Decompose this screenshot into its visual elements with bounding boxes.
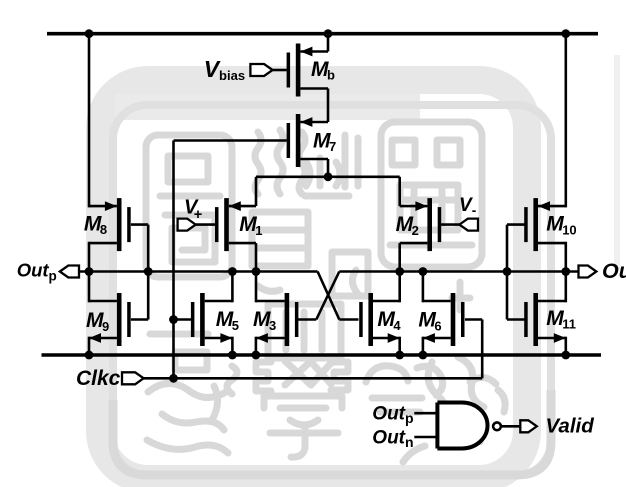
svg-text:Clkc: Clkc	[76, 367, 121, 390]
svg-text:M7: M7	[313, 129, 336, 154]
svg-text:+: +	[194, 207, 203, 223]
svg-text:M3: M3	[253, 308, 276, 333]
svg-text:M5: M5	[216, 308, 239, 333]
svg-text:Vbias: Vbias	[204, 56, 245, 83]
svg-text:V-: V-	[459, 195, 476, 218]
svg-text:Outp: Outp	[372, 403, 413, 426]
svg-text:M6: M6	[418, 309, 441, 334]
svg-text:Outn: Outn	[372, 427, 413, 450]
svg-text:M4: M4	[377, 308, 401, 333]
svg-text:Outn: Outn	[602, 259, 626, 286]
svg-text:Outp: Outp	[17, 259, 57, 283]
svg-text:M1: M1	[239, 213, 262, 238]
svg-text:Valid: Valid	[546, 414, 595, 437]
svg-text:M11: M11	[546, 307, 576, 332]
svg-text:Mb: Mb	[311, 58, 335, 82]
svg-text:M10: M10	[546, 213, 576, 238]
